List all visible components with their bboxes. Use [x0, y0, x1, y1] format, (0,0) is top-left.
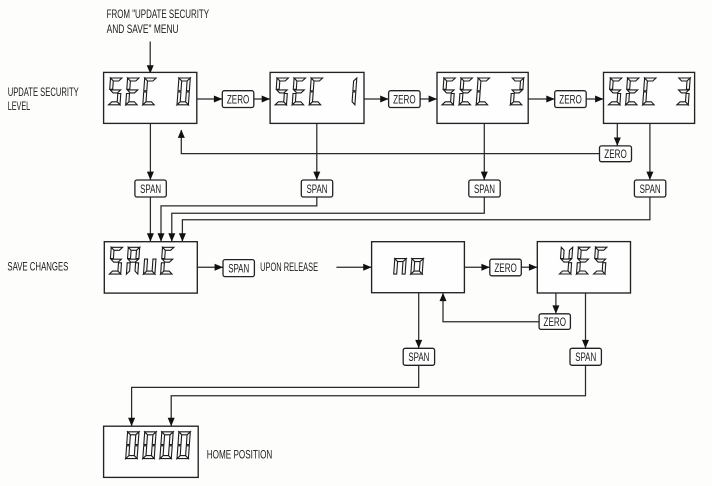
- svg-text:SAVE CHANGES: SAVE CHANGES: [7, 260, 68, 274]
- wire ZERO feedback to SEC 0: [178, 130, 600, 154]
- button box ZERO 1: [222, 91, 254, 108]
- display box YES: [537, 242, 630, 293]
- wire display down to SPAN: [481, 123, 488, 180]
- wire display down to SPAN: [313, 123, 320, 180]
- svg-text:SPAN: SPAN: [474, 182, 495, 196]
- wire SPAN to home position display: [128, 365, 419, 426]
- button box SPAN 2: [301, 180, 332, 197]
- wire SPAN to home position display 2: [168, 365, 586, 426]
- wire YES down to ZERO: [552, 293, 559, 314]
- button box SPAN below YES: [570, 348, 601, 365]
- wire to no box: [336, 264, 371, 271]
- svg-text:UPON RELEASE: UPON RELEASE: [260, 260, 318, 274]
- svg-text:ZERO: ZERO: [494, 261, 517, 275]
- svg-text:ZERO: ZERO: [544, 315, 567, 329]
- wire ZERO feedback to no: [440, 293, 540, 322]
- wire YES down to SPAN: [582, 293, 589, 348]
- wire SPAN3 to SAVE: [168, 197, 484, 242]
- wire top entry into SEC 0: [147, 42, 154, 74]
- button box SPAN 4: [634, 180, 665, 197]
- button box SPAN below no: [403, 348, 434, 365]
- wire SEC3 down to ZERO: [614, 123, 621, 145]
- svg-text:ZERO: ZERO: [559, 92, 582, 106]
- button box ZERO row2: [490, 259, 522, 276]
- wire no down to SPAN: [415, 293, 422, 349]
- button box ZERO 2: [389, 91, 421, 108]
- wire display down to SPAN: [646, 123, 653, 180]
- svg-text:LEVEL: LEVEL: [8, 99, 31, 113]
- button box SPAN release: [223, 260, 254, 277]
- svg-text:FROM "UPDATE SECURITY: FROM "UPDATE SECURITY: [107, 7, 210, 21]
- button box ZERO feedback row2: [539, 314, 570, 330]
- wire SEC1 to ZERO: [364, 96, 389, 103]
- display box SEC 1: [270, 72, 364, 123]
- display box SEC 2: [437, 72, 528, 123]
- wire SPAN1 to SAVE: [147, 197, 154, 242]
- wire SPAN2 to SAVE: [158, 197, 317, 242]
- button box SPAN 1: [135, 180, 166, 197]
- display box SEC 0: [104, 72, 197, 123]
- svg-text:SPAN: SPAN: [228, 261, 249, 275]
- svg-text:HOME POSITION: HOME POSITION: [207, 448, 272, 462]
- wire SEC2 to ZERO: [528, 96, 555, 103]
- button box ZERO feedback row1: [600, 146, 632, 162]
- svg-text:SPAN: SPAN: [575, 350, 596, 364]
- display box SEC 3: [604, 72, 695, 123]
- svg-text:ZERO: ZERO: [604, 147, 627, 161]
- svg-text:SPAN: SPAN: [140, 182, 161, 196]
- svg-text:SPAN: SPAN: [408, 350, 429, 364]
- svg-text:AND SAVE" MENU: AND SAVE" MENU: [107, 22, 179, 36]
- wire SEC0 to ZERO: [197, 96, 223, 103]
- svg-text:SPAN: SPAN: [307, 182, 328, 196]
- button box SPAN 3: [469, 180, 500, 197]
- button box ZERO 3: [555, 91, 587, 108]
- svg-text:ZERO: ZERO: [227, 92, 250, 106]
- svg-text:UPDATE SECURITY: UPDATE SECURITY: [8, 85, 79, 99]
- wire SPAN4 to SAVE: [179, 197, 650, 242]
- wire ZERO to SEC2: [420, 96, 437, 103]
- wire ZERO to SEC1: [254, 96, 270, 103]
- display box SAVE: [104, 242, 197, 293]
- wire SAVE to SPAN upon release: [197, 264, 223, 271]
- svg-text:SPAN: SPAN: [640, 182, 661, 196]
- wire no to ZERO: [464, 264, 489, 271]
- wire ZERO to SEC3: [586, 96, 603, 103]
- wire ZERO to YES: [521, 264, 537, 271]
- wire display down to SPAN: [147, 123, 154, 180]
- display box 0000: [104, 426, 199, 477]
- display box no: [372, 242, 465, 293]
- svg-text:ZERO: ZERO: [393, 92, 416, 106]
